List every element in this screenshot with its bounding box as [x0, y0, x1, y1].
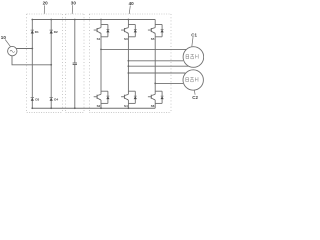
label 20	[43, 1, 49, 6]
svg-text:C1: C1	[191, 32, 197, 37]
diode D1	[31, 30, 34, 33]
rectifier dashed box 20	[27, 14, 63, 113]
motor C1 inner text	[186, 54, 198, 59]
svg-text:D1: D1	[35, 30, 39, 34]
svg-text:40: 40	[129, 1, 135, 6]
capacitor C wire top	[74, 20, 76, 64]
junction dot W4	[127, 72, 129, 74]
leader for 10	[5, 40, 10, 47]
inverter leg1 wire lower	[100, 100, 102, 108]
junction dot W2	[127, 60, 129, 62]
leader for C1	[192, 37, 193, 47]
svg-text:S2: S2	[97, 104, 101, 108]
motor C2 inner text	[186, 77, 198, 82]
junction dot A-top	[31, 19, 33, 21]
junction dot leg2-top	[127, 19, 129, 21]
motor C2 circle	[183, 70, 203, 90]
junction dot B-bottom	[50, 107, 52, 109]
junction dot W3	[127, 65, 129, 67]
inverter leg3 wire upper	[154, 20, 156, 28]
svg-text:D4: D4	[54, 98, 58, 102]
leader for 30	[71, 5, 74, 14]
wire AC upper to rectifier leg A	[16, 48, 32, 50]
svg-text:D3: D3	[35, 98, 39, 102]
bottom bus N	[32, 107, 155, 109]
rectifier leg A wire	[31, 20, 33, 109]
label S1	[97, 37, 101, 41]
junction dot leg1-bottom	[100, 107, 102, 109]
phase wire W5 leg3 to motor C2	[155, 82, 183, 84]
svg-text:S1: S1	[97, 37, 101, 41]
svg-text:10: 10	[1, 35, 7, 40]
top bus P	[32, 19, 155, 21]
label S2	[97, 104, 101, 108]
IGBT S4	[121, 91, 137, 103]
junction dot cap-bottom	[74, 107, 76, 109]
svg-text:C2: C2	[192, 95, 198, 100]
label 40	[129, 1, 135, 6]
junction dot W5	[154, 83, 156, 85]
junction dot leg2-bottom	[127, 107, 129, 109]
label 30	[71, 0, 77, 5]
AC source VS	[8, 46, 17, 55]
inverter leg2 wire lower	[127, 100, 129, 108]
inverter leg1 wire mid	[100, 33, 102, 94]
phase wire W2 leg2 to motor C1	[128, 60, 183, 62]
inverter dashed box 40	[89, 14, 171, 113]
junction dot A-bottom	[31, 107, 33, 109]
junction dot AC-B	[50, 64, 52, 66]
svg-text:D2: D2	[54, 30, 58, 34]
diode D2	[50, 30, 53, 33]
label S6	[151, 104, 155, 108]
inverter leg1 wire upper	[100, 20, 102, 28]
label 10	[1, 35, 7, 40]
label C2	[192, 95, 198, 100]
junction dot W1	[100, 49, 102, 51]
junction dot AC-A	[31, 48, 33, 50]
label S3	[124, 37, 128, 41]
IGBT S5	[148, 25, 164, 37]
diode D4	[50, 98, 53, 101]
capacitor plates	[73, 63, 77, 65]
IGBT S2	[94, 91, 110, 103]
label C1	[191, 32, 197, 37]
svg-text:30: 30	[71, 0, 77, 5]
rectifier leg B wire	[50, 20, 52, 109]
capacitor wire bottom	[74, 65, 76, 109]
inverter leg2 wire mid	[127, 33, 129, 94]
junction dot B-top	[50, 19, 52, 21]
svg-text:S6: S6	[151, 104, 155, 108]
svg-text:S4: S4	[124, 104, 128, 108]
IGBT S6	[148, 91, 164, 103]
svg-text:S5: S5	[151, 37, 155, 41]
inverter leg2 wire upper	[127, 20, 129, 28]
phase wire W3 leg2 to motor C1 bottom	[128, 65, 188, 67]
label S4	[124, 104, 128, 108]
label S5	[151, 37, 155, 41]
leader for C2	[193, 90, 196, 95]
phase wire W4 leg2 to motor C2	[128, 72, 185, 74]
svg-text:20: 20	[43, 1, 49, 6]
wire AC lower to rectifier leg B	[12, 56, 51, 65]
phase wire W1 leg1 to motor C1	[101, 48, 186, 50]
IGBT S1	[94, 25, 110, 37]
IGBT S3	[121, 25, 137, 37]
svg-text:S3: S3	[124, 37, 128, 41]
junction dot leg1-top	[100, 19, 102, 21]
inverter leg3 wire lower	[154, 100, 156, 108]
leader for 20	[43, 5, 45, 14]
inverter leg3 wire mid	[154, 33, 156, 94]
motor C1 circle	[183, 47, 204, 68]
leader for 40	[129, 6, 130, 14]
diode D3	[31, 98, 34, 101]
junction dot cap-top	[74, 19, 76, 21]
DC link dashed box 30	[66, 14, 85, 113]
